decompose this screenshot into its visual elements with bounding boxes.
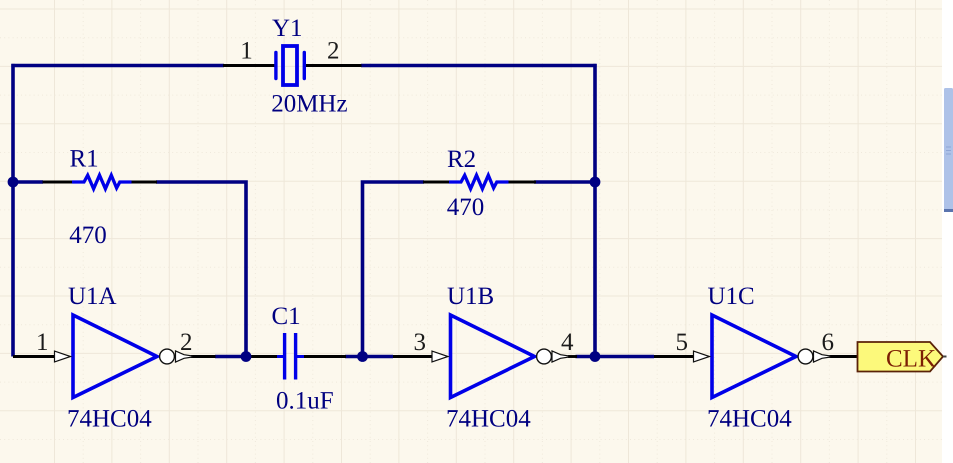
capacitor C1 left stub — [277, 355, 283, 358]
capacitor C1 pin 2 lead — [304, 355, 347, 358]
junction node U1B out — [590, 351, 601, 362]
svg-text:R2: R2 — [447, 146, 476, 173]
wire R2 right — [534, 180, 595, 184]
scrollbar thumb — [944, 88, 953, 212]
svg-text:5: 5 — [676, 329, 689, 356]
svg-text:3: 3 — [414, 329, 427, 356]
svg-text:74HC04: 74HC04 — [67, 405, 152, 432]
crystal Y1 left plate — [274, 53, 277, 79]
junction node R1 left — [8, 177, 19, 188]
resistor R1 pin 1 lead — [43, 181, 74, 184]
svg-text:470: 470 — [69, 222, 107, 249]
U1A output pin lead — [191, 355, 216, 358]
svg-text:CLK: CLK — [886, 346, 936, 373]
U1A input arrow — [55, 351, 71, 362]
capacitor C1 pin 1 lead — [247, 355, 278, 358]
crystal Y1 pin 2 lead — [304, 64, 362, 67]
inverter U1A triangle — [73, 315, 157, 398]
svg-text:U1A: U1A — [68, 283, 117, 310]
U1A output bubble — [160, 349, 175, 364]
svg-text:74HC04: 74HC04 — [707, 405, 792, 432]
resistor R1 body — [72, 175, 132, 189]
resistor R2 pin 1 lead — [423, 181, 450, 184]
U1A input pin lead — [13, 355, 55, 358]
U1C output arrow — [814, 351, 831, 362]
U1A output arrow — [176, 351, 193, 362]
svg-text:U1B: U1B — [447, 283, 494, 310]
junction node R2 right — [590, 177, 601, 188]
capacitor C1 right stub — [297, 355, 304, 358]
U1B input arrow — [432, 351, 448, 362]
svg-text:2: 2 — [180, 329, 193, 356]
junction node C1 right — [357, 351, 368, 362]
svg-text:0.1uF: 0.1uF — [276, 388, 334, 415]
U1C input pin lead — [654, 355, 694, 358]
resistor R2 body — [449, 175, 509, 189]
svg-text:20MHz: 20MHz — [271, 90, 347, 117]
scrollbar track — [942, 0, 953, 463]
U1B output arrow — [552, 351, 569, 362]
U1C output pin lead — [830, 355, 858, 358]
U1C output bubble — [798, 349, 813, 364]
svg-text:2: 2 — [327, 38, 340, 65]
port CLK — [858, 342, 947, 373]
svg-text:C1: C1 — [272, 303, 301, 330]
capacitor C1 right plate — [294, 333, 297, 380]
wire C1 right to U1B input — [345, 355, 393, 359]
svg-text:6: 6 — [822, 329, 835, 356]
svg-text:1: 1 — [36, 329, 49, 356]
capacitor C1 left plate — [283, 333, 286, 380]
U1B input pin lead — [393, 355, 433, 358]
resistor R2 pin 2 lead — [509, 181, 537, 184]
wire U1A output to C1 junction — [215, 355, 248, 359]
U1C input arrow — [694, 351, 710, 362]
wire R1 left — [13, 180, 43, 184]
wire top horizontal right — [361, 64, 597, 68]
svg-text:74HC04: 74HC04 — [446, 405, 531, 432]
crystal Y1 right plate — [303, 53, 306, 79]
svg-text:Y1: Y1 — [272, 15, 303, 42]
svg-text:4: 4 — [561, 329, 574, 356]
wire left vertical — [11, 64, 15, 357]
inverter U1C triangle — [712, 315, 796, 398]
crystal Y1 pin 1 lead — [223, 64, 276, 67]
svg-text:470: 470 — [447, 194, 485, 221]
inverter U1B triangle — [451, 315, 535, 398]
U1B output pin lead — [568, 355, 577, 358]
svg-text:1: 1 — [240, 38, 253, 65]
wire R2 riser and left — [363, 182, 425, 357]
junction node C1 left — [241, 351, 252, 362]
resistor R1 pin 2 lead — [131, 181, 157, 184]
U1B output bubble — [537, 349, 552, 364]
wire top horizontal left — [11, 64, 224, 68]
crystal Y1 body — [283, 46, 297, 85]
wire right vertical — [593, 64, 597, 357]
svg-text:R1: R1 — [70, 146, 99, 173]
wire R1 right to riser — [156, 182, 246, 357]
svg-text:U1C: U1C — [708, 283, 755, 310]
wire U1B output through junction to U1C — [576, 355, 655, 359]
